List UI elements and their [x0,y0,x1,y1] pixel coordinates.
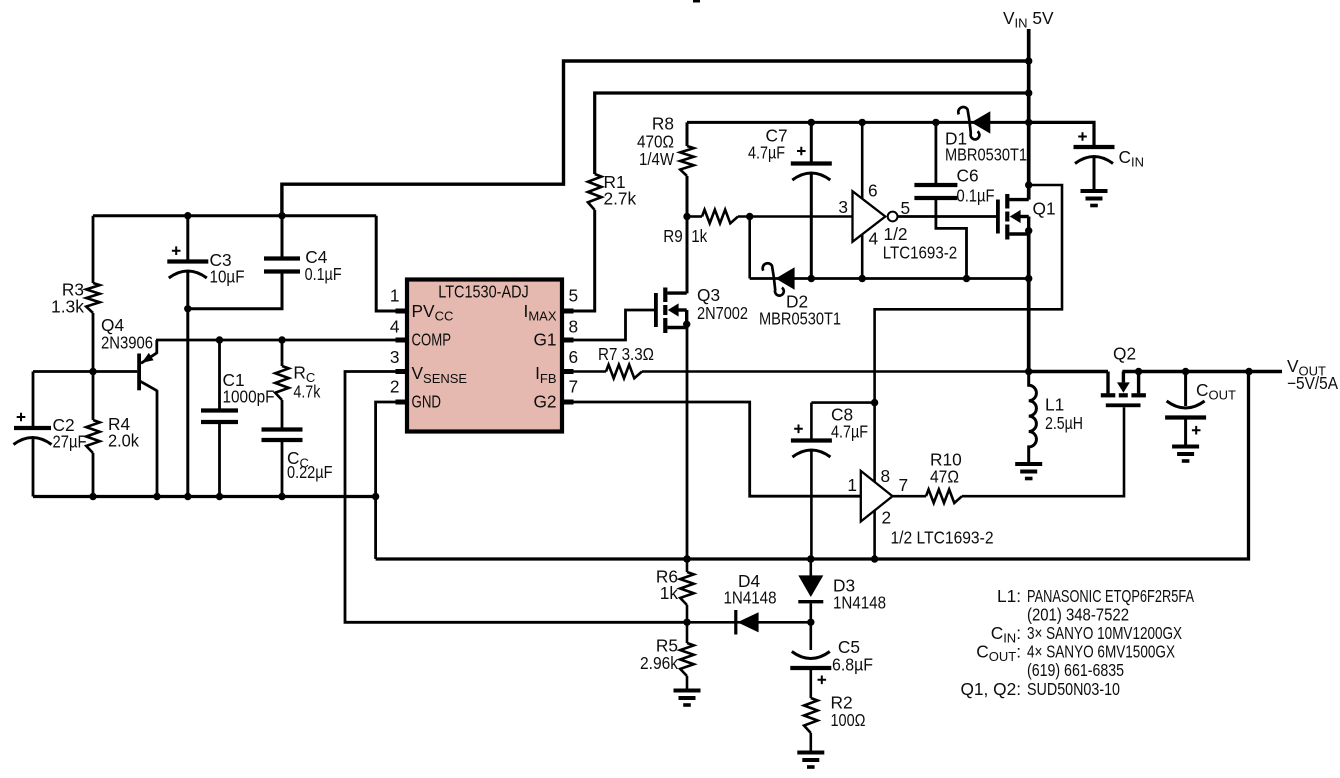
wire G1 to Q3 gate [564,310,655,340]
wire Q1 source down to L1 node [1027,234,1031,372]
node dot pin4 rail [859,275,866,282]
wire driver U1a output pin5 to Q1 gate [898,215,996,218]
svg-text:6.8µF: 6.8µF [832,654,873,674]
plus sign CIN [1078,132,1087,141]
node dot RC top [278,336,285,343]
resistor R2 [804,698,818,733]
wire C3 C4 bottom link [188,272,282,309]
node dot rail CC [278,493,285,500]
resistor R4 [86,420,100,453]
diode D4 1N4148 [734,610,737,635]
node dot rail C3 [184,493,191,500]
node dot pin6 rail [859,119,866,126]
wire y122 rail to CIN [1029,122,1094,147]
wire IFB line [564,370,607,372]
svg-text:2N7002: 2N7002 [697,303,748,323]
svg-text:5: 5 [901,198,911,218]
svg-text:2.5µH: 2.5µH [1045,413,1083,433]
wire pin4 from driver U1a bottom to ground rail [861,234,864,279]
svg-text:2N3906: 2N3906 [101,333,153,353]
plus sign C3 [172,246,181,255]
svg-text:100Ω: 100Ω [831,710,866,730]
transistor Q3 2N7002 nmos [654,293,658,327]
wire G2 to driver U1b input [564,402,861,496]
wire ground-reference rail y559 [376,372,1249,560]
capacitor C1 [218,340,221,411]
capacitor C5 [809,622,812,650]
wire VOUT rail [1122,370,1282,373]
svg-text:8: 8 [569,316,579,336]
resistor R6 [686,559,689,572]
wire COMP line [156,339,407,342]
wire switch node to Q2 drain [1029,370,1108,374]
svg-text:VIN 5V: VIN 5V [1003,8,1054,31]
resistor R9 [702,210,738,224]
svg-text:Q3: Q3 [697,285,720,305]
node dot VIN y122 [1025,119,1032,126]
svg-text:3× SANYO 10MV1200GX: 3× SANYO 10MV1200GX [1027,623,1182,643]
wire U1b pin2 to rail [873,510,876,560]
ground R2 [797,751,824,755]
wire PVCC drop to pin1 [376,216,407,311]
svg-text:Q1, Q2:: Q1, Q2: [960,679,1021,699]
svg-text:2: 2 [390,377,400,397]
svg-text:MBR0530T1: MBR0530T1 [759,308,841,328]
capacitor CIN [1074,145,1115,149]
ground L1 [1015,462,1042,466]
svg-text:27µF: 27µF [53,432,87,452]
caption remnant speck [693,0,700,3]
capacitor C2 [32,372,35,429]
node dot C6 bottom [963,275,970,282]
diode D1 MBR0530T1 schottky [971,111,990,133]
node dot C3 bottom link [184,305,191,312]
svg-text:4: 4 [869,228,879,248]
svg-text:R7 3.3Ω: R7 3.3Ω [598,344,654,364]
svg-text:(619) 661-6835: (619) 661-6835 [1027,660,1124,680]
node dot rail R4 [89,493,96,500]
node dot C8 branch [871,399,878,406]
wire VIN vertical from VIN label to Q1 drain [1027,29,1031,200]
capacitor C7 [810,122,813,163]
svg-text:8: 8 [881,466,891,486]
resistor R8 with top wire [686,122,689,146]
svg-text:4.7µF: 4.7µF [831,421,868,441]
node dot R9 D2 junction [746,213,753,220]
resistor R5 [686,622,689,643]
svg-text:COUT: COUT [1196,380,1236,403]
resistor R3 [92,216,95,283]
svg-text:4: 4 [390,316,400,336]
svg-text:2.96k: 2.96k [640,653,678,673]
svg-text:1N4148: 1N4148 [833,593,886,613]
capacitor C6 [935,122,938,185]
svg-text:2.7k: 2.7k [604,188,637,208]
svg-text:10µF: 10µF [210,266,245,286]
IC pin stubs right [562,309,574,314]
inductor L1 [1029,372,1037,465]
svg-text:7: 7 [899,475,909,495]
svg-text:6: 6 [868,181,878,201]
svg-text:1: 1 [847,475,857,495]
node dot C6 top [932,119,939,126]
wire second rail y93 to R1 [595,93,1029,174]
wire R10 to Q2 gate [962,407,1124,496]
svg-text:Q2: Q2 [1113,343,1136,363]
capacitor C3 [186,216,189,262]
node dot R8 R9 junction [683,213,690,220]
node dot C7 bottom [808,275,815,282]
svg-text:0.1µF: 0.1µF [305,264,342,284]
node dot VIN y61 [1025,57,1032,64]
svg-text:1.3k: 1.3k [51,296,84,316]
svg-text:G2: G2 [533,392,556,412]
node dot switch node [1025,368,1032,375]
wire PVCC node line y215 [93,214,376,217]
node dot rail-Q1 source [1025,275,1032,282]
driver U1a triangle 1/2 LTC1693-2 [853,191,886,242]
transistor Q2 nmos [1106,372,1109,394]
svg-text:5: 5 [569,285,579,305]
wire R9 input line y216 [687,215,702,218]
node dot D3 D4 C5 [807,619,814,626]
node dot rail C1 [216,493,223,500]
diode D2 MBR0530T1 schottky [776,267,795,289]
svg-text:MBR0530T1: MBR0530T1 [945,145,1027,165]
capacitor CC [262,427,303,431]
node dot VIN y93 [1025,89,1032,96]
svg-text:1/2: 1/2 [884,224,908,244]
svg-text:4× SANYO 6MV1500GX: 4× SANYO 6MV1500GX [1027,642,1175,662]
IC U2 LTC1530-ADJ body [407,280,562,432]
svg-text:1/2 LTC1693-2: 1/2 LTC1693-2 [891,527,994,547]
wire driver U1a ground rail y278 [750,277,1029,280]
diode D3 1N4148 [809,559,812,576]
wire Q3 source down to rail [686,328,689,560]
node dot GND left rail [372,493,379,500]
transistor Q1 nmos [996,200,1000,234]
wire pin6 from rail to driver U1a top [861,122,864,201]
svg-text:0.22µF: 0.22µF [287,462,333,482]
node dot COUT rail [1182,368,1189,375]
svg-text:3: 3 [390,347,400,367]
capacitor C8 [811,401,874,404]
plus sign C2 [17,413,26,422]
resistor R7 [606,365,642,379]
wire driver U1b output [893,495,927,498]
resistor R10 [926,489,962,503]
wire D2 branch down [748,217,751,279]
plus sign COUT [1192,426,1201,435]
node dot Q2 source rail [1135,368,1142,375]
wire Q4 base line [33,370,137,373]
ground R5 [674,689,701,693]
node dot R3 R4 base [89,368,96,375]
capacitor C4 [264,256,300,260]
wire top rail y61 to PVCC feed [282,61,1029,216]
node dot C1 top [216,336,223,343]
wire D4 line [687,621,811,624]
svg-text:L1:: L1: [997,586,1021,606]
node dot Q1 drain branch [1025,181,1032,188]
node dot C3 top [184,212,191,219]
node dot rail R6 [683,555,690,562]
driver U1a inverting bubble [888,212,898,222]
svg-text:0.1µF: 0.1µF [957,186,995,206]
svg-text:PANASONIC ETQP6F2R5FA: PANASONIC ETQP6F2R5FA [1027,586,1194,606]
plus sign C7 [797,147,806,156]
resistor R1 [588,174,602,210]
node dot VOUT feedback [1245,368,1252,375]
plus sign C5 [818,676,827,685]
svg-text:L1: L1 [1045,395,1064,415]
svg-text:4.7µF: 4.7µF [748,143,785,163]
wire analog ground rail y496 [33,495,376,498]
svg-text:47Ω: 47Ω [930,466,959,486]
ground CIN [1081,189,1108,193]
svg-text:G1: G1 [533,330,556,350]
IC pin stubs left [396,309,408,314]
ground COUT [1172,445,1199,449]
wire U1b supply down to pin8 [873,403,876,482]
node dot rail C8-D3 [807,555,814,562]
svg-text:2.0k: 2.0k [108,431,139,451]
wire Q1 drain branch to driver U1b supply [875,185,1062,403]
svg-text:1N4148: 1N4148 [724,588,777,608]
svg-text:GND: GND [412,392,442,412]
svg-text:Q1: Q1 [1033,199,1056,219]
node dot C4 top [278,212,285,219]
svg-text:7: 7 [569,377,579,397]
svg-text:LTC1530-ADJ: LTC1530-ADJ [438,282,529,302]
plus sign C8 [794,425,803,434]
svg-text:4.7k: 4.7k [293,381,320,401]
svg-text:(201) 348-7522: (201) 348-7522 [1027,604,1129,624]
svg-text:2: 2 [882,507,892,527]
svg-text:−5V/5A: −5V/5A [1287,373,1338,393]
svg-text:1k: 1k [660,583,679,603]
svg-text:COMP: COMP [412,330,452,350]
svg-text:3: 3 [838,197,848,217]
transistor Q4 2N3906 pnp [137,354,141,391]
svg-text:1: 1 [390,285,400,305]
svg-text:6: 6 [569,347,579,367]
svg-text:CIN: CIN [1119,147,1144,170]
node dot VSENSE divider [683,619,690,626]
svg-text:1/4W: 1/4W [639,149,675,169]
svg-text:C6: C6 [957,166,979,186]
wire VSENSE feedback [345,372,687,623]
wire driver VCC rail y122 [687,121,1029,124]
node dot rail Q4 collector [153,493,160,500]
node dot D3 top [807,555,814,562]
driver U1b triangle 1/2 LTC1693-2 [861,471,893,522]
node dot U1b pin2 rail [871,555,878,562]
svg-text:R9 1k: R9 1k [663,226,707,246]
node dot C7 top [808,119,815,126]
node dot Q3 rail [683,555,690,562]
wire R1 bottom to IMAX pin 5 [564,210,595,311]
capacitor COUT [1184,372,1187,407]
wire GND pin to rails [376,402,407,559]
svg-text:LTC1693-2: LTC1693-2 [883,243,958,263]
svg-text:SUD50N03-10: SUD50N03-10 [1027,679,1120,699]
resistor RC [281,340,284,366]
svg-text:1000pF: 1000pF [223,387,275,407]
